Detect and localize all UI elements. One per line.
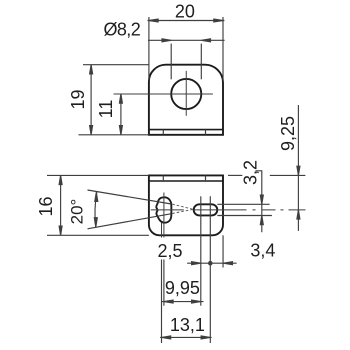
svg-text:20: 20 xyxy=(175,2,195,22)
circle horizontal centerline xyxy=(114,93,213,95)
dimension 16 extension lines xyxy=(47,175,149,235)
extension line pair below hole xyxy=(161,223,163,238)
side view outline xyxy=(149,175,223,235)
svg-text:13,1: 13,1 xyxy=(170,315,205,335)
dimension 19 line and arrows xyxy=(90,65,93,135)
circle vertical centerline xyxy=(185,71,187,116)
slot outline xyxy=(194,204,218,215)
top view bend line xyxy=(149,129,223,131)
20 degree lower ray xyxy=(88,214,172,229)
angled hole vertical centerline upper xyxy=(163,193,165,238)
svg-text:9,25: 9,25 xyxy=(278,116,298,151)
svg-text:16: 16 xyxy=(36,196,56,216)
svg-text:19: 19 xyxy=(68,89,88,109)
svg-text:2,5: 2,5 xyxy=(157,241,182,261)
hidden cone upper dashed line xyxy=(172,204,193,209)
dimension 20 extension lines xyxy=(149,17,223,81)
extension line hole centerline lower xyxy=(163,260,165,306)
dimension 3,2 line with hook and arrows xyxy=(256,171,264,233)
extension line slot right arc xyxy=(209,196,211,343)
dimension 3,2 extension lines (slot edges extended) xyxy=(217,204,272,215)
top view outline xyxy=(149,65,223,135)
svg-text:9,95: 9,95 xyxy=(165,278,200,298)
side view bend line xyxy=(149,180,223,182)
dimension O8,2 line and arrows xyxy=(148,39,225,42)
svg-text:3,2: 3,2 xyxy=(240,160,260,185)
dimension 9,25 extension line top xyxy=(228,174,305,176)
svg-text:20°: 20° xyxy=(68,199,87,225)
dimension 13,1 line and arrows xyxy=(160,336,212,339)
dimension 9,95 line and arrows xyxy=(161,300,204,303)
svg-text:Ø8,2: Ø8,2 xyxy=(104,19,141,39)
hole horizontal centerline xyxy=(151,209,184,211)
20 degree dimension arc and arrows xyxy=(94,192,98,228)
20 degree upper ray xyxy=(88,190,172,204)
dimension 16 line and arrows xyxy=(59,175,62,235)
svg-text:3,4: 3,4 xyxy=(250,241,275,261)
extension line part right edge lower xyxy=(222,235,224,267)
side view bend tick left xyxy=(162,175,164,181)
hole circle O8,2 xyxy=(171,79,201,109)
dimension 19 extension lines xyxy=(79,65,149,135)
dimension 20 line and arrows xyxy=(148,19,225,22)
slot centerline (dash-dot to right) xyxy=(194,209,306,211)
extension line slot left arc xyxy=(200,196,202,305)
extension line 13,1 left xyxy=(161,260,163,344)
top view bend tick right xyxy=(205,130,207,135)
dimension 9,25 line and arrows xyxy=(297,105,300,231)
top view bend tick left xyxy=(162,130,164,135)
dimension O8,2 extension lines xyxy=(171,44,201,80)
dimension 11 line and arrows xyxy=(119,94,122,135)
angled hole outline xyxy=(156,197,171,222)
hidden cone lower dashed line xyxy=(172,209,193,213)
side view bend tick right xyxy=(205,175,207,181)
dimension 2,5 and 3,4 line with arrows and dot xyxy=(187,261,237,266)
svg-text:11: 11 xyxy=(96,100,116,119)
